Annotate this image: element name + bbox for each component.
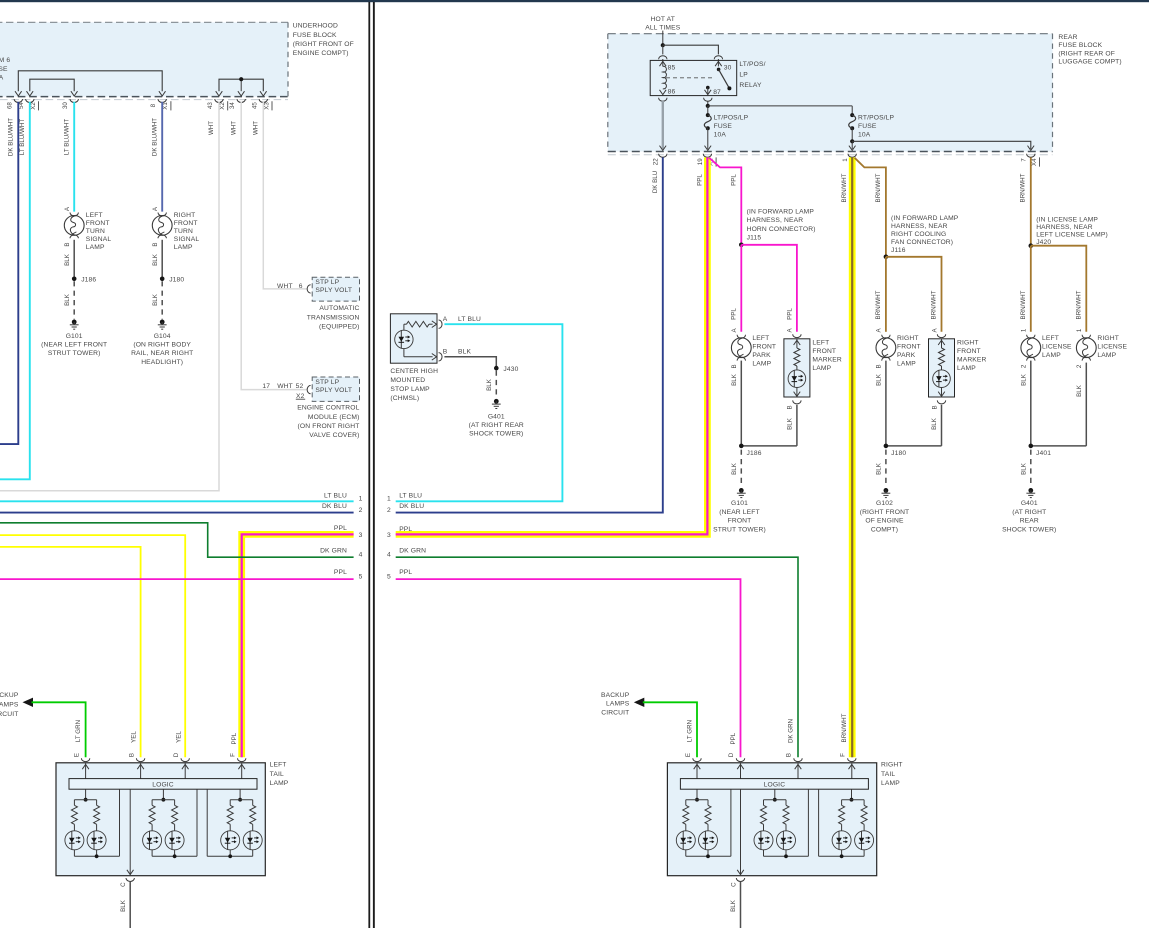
wire DK GRN circuit 4 (left panel) [0,523,363,559]
underhood fuse block [0,22,288,99]
svg-text:BLK: BLK [731,462,738,475]
svg-text:PPL: PPL [730,732,737,744]
svg-text:45: 45 [251,102,258,109]
left tail lamp pin C exit [120,789,134,887]
svg-text:C: C [730,882,737,887]
left license lamp [1021,328,1072,368]
svg-text:UNDERHOOD: UNDERHOOD [293,23,338,30]
wire BRN/WHT from J420 to left license lamp [1020,246,1031,332]
svg-text:LT BLU/WHT: LT BLU/WHT [63,119,70,155]
HOT AT ALL TIMES feed [645,16,681,45]
underhood fuse block pin 45 connector X3 [251,99,272,110]
svg-text:G101: G101 [731,500,748,507]
relay coil pins 85-86 [660,65,676,96]
svg-text:(RIGHT FRONT OF: (RIGHT FRONT OF [293,41,354,48]
svg-text:(IN FORWARD LAMP: (IN FORWARD LAMP [891,215,959,222]
wire LT BLU/WHT from pin 54 [0,102,30,480]
wire YEL to left tail lamp pin D [0,535,185,757]
svg-text:DK GRN: DK GRN [399,548,426,555]
ground chain J186 to G101 (right panel) [713,361,797,534]
svg-text:(NEAR LEFT: (NEAR LEFT [719,509,760,516]
svg-text:STP LP: STP LP [315,379,339,386]
svg-text:1: 1 [1021,328,1028,332]
svg-text:BLK: BLK [1020,462,1027,475]
svg-text:CENTER HIGH: CENTER HIGH [390,368,438,375]
left front marker lamp [784,327,842,409]
svg-text:LAMP: LAMP [752,361,771,368]
svg-text:G401: G401 [1021,500,1038,507]
svg-text:LAMP: LAMP [957,365,976,372]
svg-text:PPL: PPL [334,569,347,576]
wire YEL to left tail lamp pin B [0,547,141,757]
svg-text:30: 30 [724,65,732,72]
svg-text:RIGHT COOLING: RIGHT COOLING [891,231,946,238]
svg-text:RIGHT: RIGHT [897,335,919,342]
left tail lamp pin labels [73,731,238,758]
svg-text:(RIGHT REAR OF: (RIGHT REAR OF [1058,50,1115,57]
svg-text:MARKER: MARKER [812,357,842,364]
svg-text:LAMP: LAMP [1097,352,1116,359]
svg-text:BLK: BLK [64,253,71,266]
svg-text:B: B [64,243,71,247]
wire WHT from pin 34 to ECM [230,102,307,390]
svg-text:BRN/WHT: BRN/WHT [1076,290,1083,319]
svg-text:LAMP: LAMP [812,365,831,372]
svg-text:SIGNAL: SIGNAL [86,236,112,243]
svg-text:J401: J401 [1036,450,1051,457]
svg-text:1: 1 [1076,328,1083,332]
svg-text:(AT RIGHT REAR: (AT RIGHT REAR [469,422,524,429]
svg-text:AUTOMATIC: AUTOMATIC [319,305,359,312]
svg-text:WHT: WHT [208,121,215,135]
rear fuse block [608,34,1053,155]
svg-text:LAMP: LAMP [86,244,105,251]
wire DK BLU/WHT from pin 68 [0,102,18,444]
svg-text:30: 30 [62,102,69,109]
panel divider [368,2,374,928]
svg-text:FRONT: FRONT [812,348,836,355]
svg-text:52: 52 [296,383,304,390]
svg-text:PPL: PPL [399,526,412,533]
svg-text:LAMPS: LAMPS [606,701,630,708]
wire BRN/WHT from J116 to right front park lamp [875,257,886,332]
relay pin 87 [705,86,722,96]
rear fuse block pin 1 [842,154,856,162]
license lamp pin 2 labels [0,0,1,1]
right tail lamp label [881,762,903,787]
wire DK BLU circuit 2 (left panel) [0,503,363,514]
svg-text:G104: G104 [154,333,171,340]
svg-text:BRN/WHT: BRN/WHT [841,713,848,742]
svg-text:FUSE: FUSE [714,123,733,130]
svg-text:X3: X3 [263,102,270,110]
svg-text:LP: LP [739,71,748,78]
right tail lamp box [667,763,876,876]
page top border [0,0,1149,2]
left tail lamp box [56,763,265,876]
wire PPL circuit 3 highlighted to left tail lamp pin F [242,525,363,757]
svg-text:(NEAR LEFT FRONT: (NEAR LEFT FRONT [41,342,107,349]
svg-text:(ON FRONT RIGHT: (ON FRONT RIGHT [298,423,360,430]
svg-text:LT/POS/: LT/POS/ [739,61,765,68]
svg-text:MARKER: MARKER [957,357,987,364]
svg-text:TAIL: TAIL [881,771,895,778]
wire BLK from right tail lamp pin C [730,882,740,928]
wire BLK from left front turn signal lamp [64,240,74,277]
wire PPL circuit 5 to right tail lamp pin D [396,579,741,757]
svg-text:ENGINE COMPT): ENGINE COMPT) [293,50,349,57]
svg-text:1: 1 [359,496,363,503]
svg-text:STRUT TOWER): STRUT TOWER) [713,526,766,533]
svg-text:68: 68 [6,102,13,109]
svg-text:BLK: BLK [152,253,159,266]
svg-text:LEFT: LEFT [86,212,103,219]
ground chain J180 to G102 [860,361,942,534]
svg-text:COMPT): COMPT) [871,526,898,533]
svg-text:DK GRN: DK GRN [788,719,795,743]
svg-text:TURN: TURN [86,228,105,235]
svg-text:B: B [152,243,159,247]
svg-text:M 6: M 6 [0,57,10,64]
svg-text:LAMP: LAMP [881,780,900,787]
svg-text:FUSE BLOCK: FUSE BLOCK [1058,42,1102,49]
svg-text:2: 2 [1021,364,1028,368]
svg-text:VALVE COVER): VALVE COVER) [309,432,359,439]
svg-text:LOGIC: LOGIC [152,781,174,788]
svg-text:J430: J430 [503,366,518,373]
svg-text:LEFT LICENSE LAMP): LEFT LICENSE LAMP) [1036,231,1108,238]
splice J116 [884,215,959,259]
wire LT BLU circuit 1 (right panel) [396,324,563,501]
svg-text:LOGIC: LOGIC [764,781,786,788]
left front turn signal lamp [64,206,111,251]
svg-text:HARNESS, NEAR: HARNESS, NEAR [891,223,948,230]
svg-text:1: 1 [387,496,391,503]
svg-text:LAMPS: LAMPS [0,702,19,709]
svg-text:E: E [73,753,80,757]
svg-text:BRN/WHT: BRN/WHT [931,290,938,319]
left tail lamp LED group 1 [65,789,120,858]
svg-text:LAMP: LAMP [1042,352,1061,359]
svg-text:X4: X4 [1031,158,1038,166]
svg-text:BLK: BLK [730,899,737,912]
left tail lamp label [270,762,289,787]
dashed BLK wire to G104 [152,281,162,319]
svg-text:FRONT: FRONT [174,220,198,227]
svg-text:PPL: PPL [786,308,793,320]
wire BRN/WHT branch to right front marker lamp [886,257,942,332]
right front park lamp [876,327,921,368]
svg-text:86: 86 [668,89,676,96]
svg-text:LT GRN: LT GRN [75,720,82,742]
rear fuse block pin 19 connector X1 [697,154,716,167]
svg-text:ALL TIMES: ALL TIMES [645,24,681,31]
svg-text:WHT: WHT [230,121,237,135]
svg-text:J180: J180 [891,450,906,457]
relay LT/POS/LP box [650,60,765,95]
svg-text:PPL: PPL [334,525,347,532]
wire BRN/WHT circuit highlighted from pin 1 to right tail lamp [841,157,852,757]
svg-text:LAMP: LAMP [270,780,289,787]
fuse block bus wire to pins 54 and 30 [27,79,78,96]
svg-text:10A: 10A [714,131,727,138]
svg-text:RIGHT: RIGHT [174,212,196,219]
svg-text:BLK: BLK [486,378,493,391]
svg-text:PPL: PPL [731,308,738,320]
splice J115 [739,209,816,248]
svg-text:BRN/WHT: BRN/WHT [1019,173,1026,202]
svg-text:MOUNTED: MOUNTED [390,377,425,384]
svg-text:2: 2 [387,507,391,514]
svg-text:DK BLU/WHT: DK BLU/WHT [151,118,158,156]
svg-text:YEL: YEL [131,731,138,743]
svg-text:REAR: REAR [1058,34,1077,41]
svg-text:B: B [787,405,794,409]
svg-text:34: 34 [229,102,236,109]
svg-text:X1: X1 [162,102,169,110]
svg-text:RIGHT: RIGHT [1097,335,1119,342]
wire WHT from pin 45 to automatic transmission [252,102,307,289]
fuse block bus wire to pins 43, 34, 45 [216,79,267,96]
svg-text:BLK: BLK [1076,384,1083,397]
svg-text:B: B [129,753,136,757]
wire DK BLU/WHT from pin 8 to right front turn signal lamp [151,102,162,212]
svg-text:BRN/WHT: BRN/WHT [875,173,882,202]
wire PPL circuit 5 (left panel) [0,569,363,580]
svg-text:8: 8 [150,103,157,107]
svg-text:F: F [230,753,237,757]
svg-text:LEFT: LEFT [752,335,769,342]
right tail lamp LED group 3 [819,789,874,858]
svg-text:B: B [731,364,738,368]
svg-text:RIGHT: RIGHT [881,762,903,769]
right tail lamp pin connectors [693,758,856,778]
svg-text:FUSE: FUSE [858,123,877,130]
wire BLK from right front turn signal lamp [152,240,162,277]
svg-text:FRONT: FRONT [86,220,110,227]
svg-text:HEADLIGHT): HEADLIGHT) [141,359,183,366]
svg-text:B: B [876,364,883,368]
svg-text:PARK: PARK [897,352,916,359]
wire PPL branch to J115 [709,158,741,320]
svg-text:2: 2 [1076,364,1083,368]
svg-text:DK BLU: DK BLU [399,503,424,510]
svg-text:F: F [840,753,847,757]
svg-text:10A: 10A [858,131,871,138]
svg-text:FRONT: FRONT [957,348,981,355]
splice J180 [160,277,185,284]
svg-text:FRONT: FRONT [728,518,752,525]
svg-text:7: 7 [1021,158,1028,162]
wire from relay pin 87 to fuses [704,98,853,115]
svg-text:FUSE BLOCK: FUSE BLOCK [293,32,337,39]
svg-text:5: 5 [387,573,391,580]
feed to relay pin 85 [659,45,667,66]
svg-text:J186: J186 [747,450,762,457]
ground chain J401 to G401 [1002,361,1086,534]
splice J420 [1029,216,1108,248]
wire BRN/WHT from pin 7 to J420 [1019,157,1030,244]
svg-text:22: 22 [653,158,660,165]
svg-text:A: A [443,316,448,323]
svg-text:BLK: BLK [458,348,471,355]
right tail lamp LED group 2 [754,789,808,858]
svg-text:BLK: BLK [152,293,159,306]
svg-text:BLK: BLK [120,899,127,912]
fuse LT/POS/LP 10A [704,113,748,150]
feed branch to relay pin 30 [663,45,723,66]
svg-text:YEL: YEL [176,731,183,743]
svg-text:85: 85 [668,65,676,72]
svg-text:(CHMSL): (CHMSL) [390,395,419,402]
svg-text:DK BLU: DK BLU [652,171,659,193]
underhood fuse block pin 54 connector X2 [18,99,39,110]
svg-text:DK BLU: DK BLU [322,503,347,510]
svg-text:STRUT TOWER): STRUT TOWER) [48,350,101,357]
wire LT BLU/WHT from pin 30 to left front turn signal lamp [63,102,74,212]
svg-text:BLK: BLK [1020,373,1027,386]
svg-text:LICENSE: LICENSE [1097,344,1127,351]
svg-text:RAIL, NEAR RIGHT: RAIL, NEAR RIGHT [131,350,193,357]
svg-text:STP LP: STP LP [315,279,339,286]
right license lamp [1076,328,1127,368]
relay link dashed line [666,77,712,79]
svg-text:WHT: WHT [252,121,259,135]
ground G401 (CHMSL) [469,399,524,438]
svg-text:LT GRN: LT GRN [687,720,694,742]
svg-text:3: 3 [387,532,391,539]
left tail lamp LED group 3 [207,789,262,858]
connector STP LP SPLY VOLT (ECM) [262,377,359,401]
svg-text:19: 19 [697,158,704,165]
svg-text:G401: G401 [488,413,505,420]
dashed BLK wire to G101 [64,281,74,319]
wire BLK from left tail lamp pin C [120,882,130,928]
svg-text:J186: J186 [81,277,96,284]
junction on bus at pin 34 [239,77,243,81]
svg-text:SHOCK TOWER): SHOCK TOWER) [469,431,523,438]
svg-text:STOP LAMP: STOP LAMP [390,386,430,393]
svg-text:6: 6 [299,283,303,290]
left tail lamp LED group 2 [143,789,197,858]
svg-text:SE: SE [0,66,8,73]
svg-text:BLK: BLK [931,417,938,430]
rear fuse block pin 22 [653,154,667,165]
right front turn signal lamp [152,206,199,251]
svg-text:TAIL: TAIL [270,771,284,778]
engine control module label [297,405,359,440]
svg-text:3: 3 [359,532,363,539]
wire DK BLU circuit 2 from pin 22 [396,157,663,512]
svg-text:PPL: PPL [231,732,238,744]
svg-text:(ON RIGHT BODY: (ON RIGHT BODY [133,342,191,349]
svg-text:BLK: BLK [64,293,71,306]
svg-text:(EQUIPPED): (EQUIPPED) [319,324,360,331]
right panel circuit labels 1-5 [387,492,426,580]
svg-text:BACKUP: BACKUP [0,692,19,699]
svg-text:C: C [120,882,127,887]
svg-text:LT BLU/WHT: LT BLU/WHT [19,119,26,155]
right tail lamp LED group 1 [676,789,731,858]
svg-text:BLK: BLK [876,373,883,386]
center high mounted stop lamp (CHMSL) [390,314,481,402]
svg-text:LAMP: LAMP [174,244,193,251]
svg-text:5: 5 [359,573,363,580]
svg-text:BLK: BLK [876,462,883,475]
wire WHT from pin 43 [0,102,219,491]
svg-text:J180: J180 [169,277,184,284]
svg-text:LICENSE: LICENSE [1042,344,1072,351]
svg-text:CIRCUIT: CIRCUIT [0,711,19,718]
wire BLK from CHMSL pin B [444,357,496,367]
svg-text:BLK: BLK [787,417,794,430]
svg-text:BRN/WHT: BRN/WHT [1020,290,1027,319]
svg-text:WHT: WHT [277,283,293,290]
svg-text:SHOCK TOWER): SHOCK TOWER) [1002,526,1056,533]
svg-text:4: 4 [387,552,391,559]
svg-text:WHT: WHT [277,383,293,390]
rear fuse block pin 7 connector X4 [1021,154,1040,167]
wire LT BLU circuit 1 (left panel) [0,492,363,502]
svg-text:LEFT: LEFT [1042,335,1059,342]
svg-text:SPLY VOLT: SPLY VOLT [315,387,352,394]
fuse label (clipped at left edge) [0,57,10,81]
underhood fuse block pin 34 [229,99,245,109]
svg-text:X2: X2 [219,102,226,110]
right tail lamp pin labels [685,719,847,757]
svg-text:PARK: PARK [752,352,771,359]
svg-text:LEFT: LEFT [812,340,829,347]
svg-text:G101: G101 [66,333,83,340]
feed junction [661,43,665,47]
svg-text:X2: X2 [30,102,37,110]
svg-text:G102: G102 [876,500,893,507]
svg-text:OF ENGINE: OF ENGINE [865,518,904,525]
svg-text:4: 4 [359,552,363,559]
wire PPL branch to left front marker lamp [741,245,797,332]
automatic transmission label [307,305,360,330]
svg-text:LT BLU: LT BLU [399,492,422,499]
ground G101 (left panel) [41,320,107,358]
svg-text:LAMP: LAMP [897,361,916,368]
underhood fuse block pin 8 connector X1 [150,99,171,110]
splice J186 [72,277,97,284]
wire PPL from J115 to left front park lamp [740,245,742,332]
svg-text:(AT RIGHT: (AT RIGHT [1012,509,1046,516]
underhood fuse block pin 68 [6,99,22,109]
svg-text:BLK: BLK [731,373,738,386]
wire PPL circuit 3 highlighted from pin 19 [396,157,708,534]
svg-text:DK BLU/WHT: DK BLU/WHT [7,118,14,156]
svg-text:1: 1 [842,158,849,162]
svg-text:RIGHT: RIGHT [957,340,979,347]
svg-text:J116: J116 [891,247,906,254]
svg-text:TRANSMISSION: TRANSMISSION [307,314,360,321]
svg-text:CIRCUIT: CIRCUIT [601,710,629,717]
left tail lamp pin connectors [81,758,246,778]
svg-text:BRN/WHT: BRN/WHT [875,290,882,319]
svg-text:17: 17 [262,383,270,390]
wire BRN/WHT branch to right license lamp [1031,246,1087,332]
svg-text:B: B [443,348,448,355]
branch to license lamp pin 7 [852,141,1034,150]
rear fuse block label [1058,34,1121,66]
ground G104 [131,320,193,366]
svg-text:D: D [173,752,180,757]
svg-text:LUGGAGE COMPT): LUGGAGE COMPT) [1058,59,1121,66]
right tail lamp pin C exit [730,789,744,887]
fuse RT/POS/LP 10A [849,113,895,150]
